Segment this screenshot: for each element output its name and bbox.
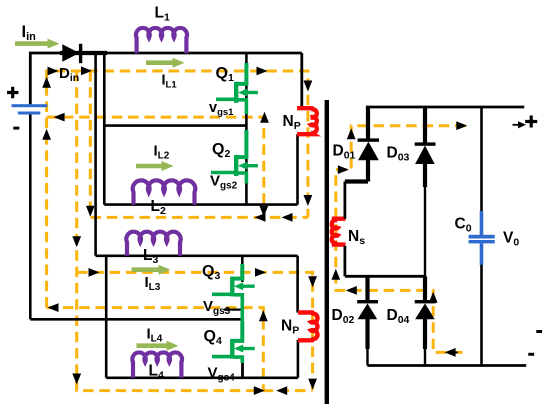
wire: output top rail <box>366 106 524 109</box>
black wires <box>30 53 302 378</box>
wire: orange rectifier loop right side <box>336 126 467 353</box>
battery <box>7 87 47 130</box>
wire: battery plus to diode and top rail <box>30 53 62 104</box>
arrow up on battery return top <box>42 77 51 88</box>
rectifier wires <box>345 107 526 366</box>
arrow down into Np top branch <box>304 81 313 92</box>
tail of bottom-left arrow near minus <box>451 351 458 353</box>
arrow right on rectifier loop top <box>456 121 467 130</box>
arrow up on Q2 loop vertical <box>260 112 269 123</box>
inductor L4 <box>132 352 182 377</box>
arrow right on bottom loop <box>254 386 265 395</box>
arrow left on phase-2 return <box>255 213 266 222</box>
transistor Q3 <box>212 264 255 331</box>
wire: Q1 source rail <box>104 124 246 127</box>
wire: Ns bottom lead vertical <box>343 246 346 276</box>
wire: vertical C <box>105 256 108 378</box>
transformer primary Np top <box>297 108 317 134</box>
arrow right on input loop at node <box>81 66 92 75</box>
wire: mid rail node B <box>345 275 425 278</box>
transistor Q2 <box>211 130 258 184</box>
arrow right below D01 <box>338 165 349 174</box>
inductor L3 <box>126 232 180 256</box>
wire: orange loop 3 vertical x77 and bottom H6 <box>77 71 313 391</box>
diode D04 <box>415 276 436 365</box>
wire: L3 top rail <box>96 255 298 258</box>
wire: orange loop H4 and x312.7 down <box>77 272 313 390</box>
wire: L4 top rail <box>30 318 242 321</box>
wire: orange loop H5 and x263.3 down <box>47 308 264 391</box>
arrow up on battery return below H2 <box>42 129 51 140</box>
transformer core <box>325 100 329 404</box>
arrow right on phase-3 loop at Q3 <box>255 268 266 277</box>
current arrow IL4 <box>137 341 179 351</box>
transformer secondary Ns <box>332 219 346 245</box>
wire: upper box left vertical B <box>103 53 106 205</box>
inductor L1 <box>136 28 187 53</box>
transistor Q4 <box>212 322 255 363</box>
transistor Q1 <box>216 63 258 114</box>
arrow down at x90 vertical end <box>86 206 95 217</box>
diode D02 <box>357 276 378 365</box>
arrow right on input loop near Din <box>48 67 59 76</box>
arrow up on Ns branch <box>331 269 340 280</box>
current arrow IL2 <box>136 161 174 171</box>
arrow up on Q4 loop vertical <box>259 310 268 321</box>
output plus terminal <box>513 116 538 129</box>
arrows on orange paths <box>42 66 467 395</box>
wire: Np bottom return vertical <box>297 340 300 378</box>
diode Din <box>60 44 107 63</box>
diode D01 <box>345 107 379 182</box>
arrow left on phase-3 return H5 <box>48 303 59 312</box>
arrow down on Np bottom return <box>308 379 317 390</box>
arrow right on phase-1 loop top <box>257 67 268 76</box>
arrow down into Np bottom branch <box>308 276 317 287</box>
arrow right on phase-3 loop left <box>89 268 100 277</box>
arrow down onto phase-2 return <box>259 206 268 217</box>
wire: vertical to Np top <box>300 53 303 108</box>
wire: L2 bottom rail <box>104 203 297 206</box>
arrow left on rectifier loop mid <box>346 286 357 295</box>
arrow left on phase-2 return near Np <box>282 213 293 222</box>
wire: Q3 source stub <box>224 309 242 311</box>
arrow left toward battery on H2 <box>54 113 65 122</box>
arrow up beside D01 <box>347 128 356 139</box>
inductor L2 <box>133 180 196 204</box>
wire: output bottom rail <box>367 364 526 367</box>
wire: feeder vertical A <box>94 53 97 256</box>
arrow left near output minus <box>445 348 456 357</box>
diode D03 <box>415 107 436 276</box>
capacitor C0 <box>469 107 495 366</box>
output minus terminal <box>536 330 542 333</box>
arrow up beside D04 <box>429 292 438 303</box>
wire: orange loop H2 and x264 down <box>47 117 264 217</box>
arrow down on x77 vertical mid <box>72 236 81 247</box>
wire: Ns top lead vertical <box>343 182 346 219</box>
current arrow IL1 <box>146 58 185 68</box>
wire: top rail <box>82 52 302 55</box>
wire: orange loop 1 (battery to Np-top via top rail) <box>47 71 467 391</box>
wire: lower box right chain <box>241 256 244 282</box>
wire: vertical to Np bottom <box>296 256 299 313</box>
wire: orange loop 2 vertical x90 and H3 <box>90 71 308 217</box>
current arrow Iin <box>15 39 60 49</box>
arrow down on x77 vertical bottom <box>72 374 81 385</box>
current arrow IL3 <box>132 265 171 275</box>
arrow down on Np top return <box>304 195 313 206</box>
transformer primary Np bottom <box>298 313 318 341</box>
wire: L4 bottom rail <box>106 376 298 379</box>
wire: Np top return vertical <box>296 134 299 204</box>
wire: upper box right vertical <box>245 53 248 205</box>
arrow left on bottom loop <box>276 386 287 395</box>
wire: battery minus down <box>29 114 32 319</box>
